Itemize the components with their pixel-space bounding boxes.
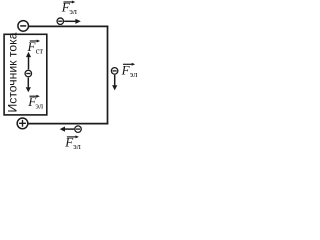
arrow F storonnaya up [28, 57, 30, 70]
source box [4, 34, 47, 115]
electron top [57, 18, 64, 25]
label F st in source [27, 39, 44, 55]
svg-text:эл: эл [73, 141, 81, 151]
label F el top [61, 0, 78, 16]
arrow F electric down in source [27, 78, 29, 88]
electron right [111, 68, 118, 75]
electron in source [25, 70, 32, 77]
terminal minus [18, 21, 29, 32]
terminal plus [17, 118, 28, 129]
electron bottom [75, 126, 82, 133]
label F el in source [27, 94, 44, 110]
svg-text:эл: эл [69, 6, 77, 16]
svg-text:эл: эл [35, 100, 43, 110]
force arrow bottom electron [64, 128, 74, 130]
wire right [107, 26, 109, 125]
wire bottom [28, 123, 109, 125]
svg-text:эл: эл [130, 69, 138, 79]
force arrow right electron [114, 75, 116, 86]
force arrow top electron [64, 20, 76, 22]
svg-text:ст: ст [36, 45, 44, 55]
label F el bottom [64, 135, 81, 151]
label F el right [121, 62, 138, 79]
wire top [29, 25, 109, 27]
svg-text:Источник тока: Источник тока [6, 32, 20, 112]
